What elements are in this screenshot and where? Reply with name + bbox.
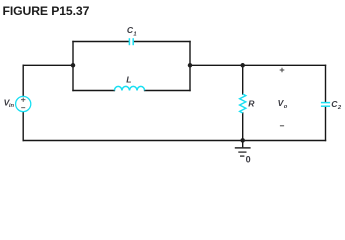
wire: ground stub — [242, 141, 244, 148]
wire: right vertical below C2 — [325, 106, 327, 140]
wire: R branch lower — [242, 113, 244, 141]
svg-text:1: 1 — [133, 31, 136, 37]
ground — [235, 148, 251, 156]
capacitor C1 — [129, 38, 133, 45]
label C2 — [331, 99, 342, 111]
wire: middle horizontal to output — [190, 64, 326, 66]
svg-text:0: 0 — [246, 155, 251, 165]
wire: top branch right of C1 — [134, 41, 190, 43]
output polarity plus — [280, 68, 285, 73]
wire: left top horizontal from source column to tank — [23, 64, 73, 66]
wire: bottom branch left of L — [73, 90, 114, 92]
capacitor C2 — [321, 103, 330, 107]
wire: bottom return — [23, 140, 325, 142]
svg-text:2: 2 — [337, 105, 342, 111]
wire: left column below source — [22, 112, 24, 141]
wire: bottom branch right of L — [145, 90, 190, 92]
wire: top branch left of C1 — [73, 41, 129, 43]
svg-text:R: R — [248, 98, 255, 108]
node junction at tank left — [71, 63, 76, 68]
node junction at ground — [240, 138, 245, 143]
wire: tank left vertical — [72, 42, 74, 91]
wire: tank right vertical — [189, 42, 191, 91]
label Vin — [4, 97, 15, 109]
node junction at R top — [240, 63, 245, 68]
inductor L — [114, 86, 144, 90]
wire: R branch upper — [242, 65, 244, 94]
output polarity minus — [280, 125, 284, 127]
svg-text:in: in — [9, 103, 15, 109]
svg-text:FIGURE P15.37: FIGURE P15.37 — [3, 4, 90, 18]
node junction at tank right — [188, 63, 193, 68]
svg-text:L: L — [126, 75, 131, 85]
voltage source Vin — [16, 96, 31, 111]
wire: left column above source — [22, 65, 24, 96]
label C1 — [127, 25, 137, 37]
resistor R — [240, 94, 246, 113]
wire: right vertical above C2 — [325, 65, 327, 102]
svg-text:o: o — [284, 104, 288, 110]
label Vo — [278, 98, 288, 110]
